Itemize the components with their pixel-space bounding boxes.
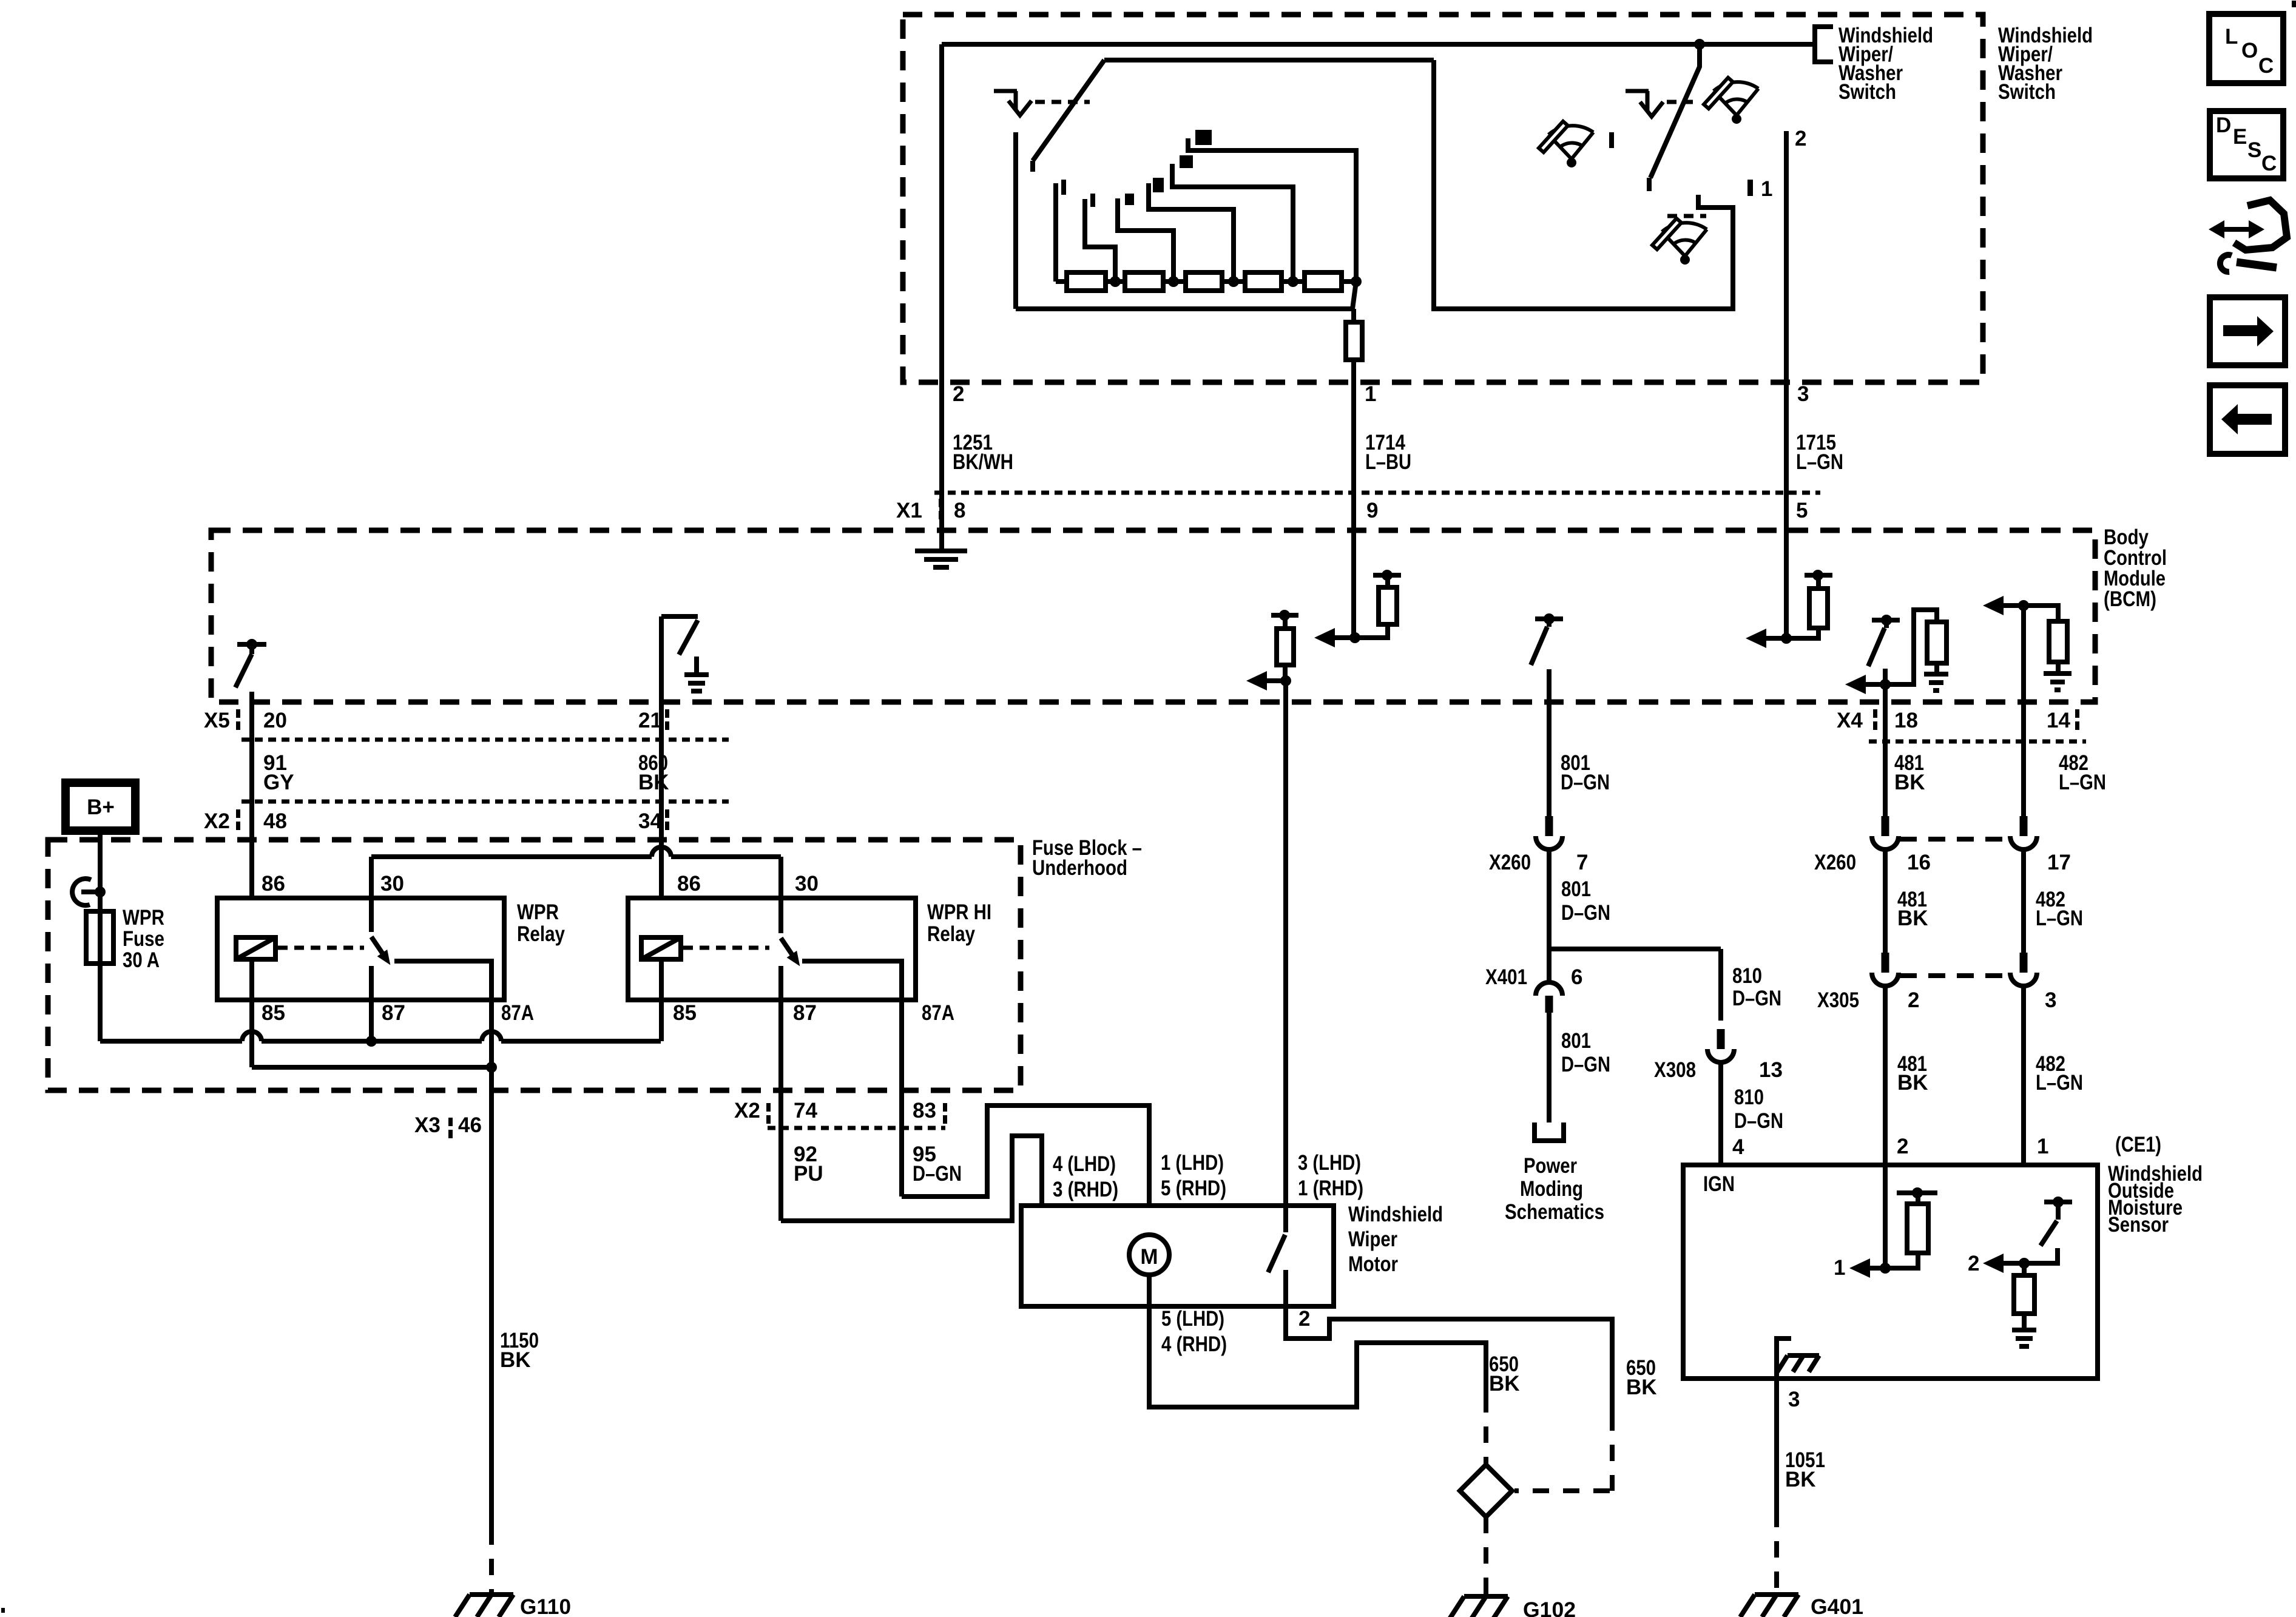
windshield wiper/washer switch dashed box — [903, 15, 1983, 382]
svg-text:E: E — [2233, 125, 2247, 149]
sensor 481 resistor stub — [1916, 1193, 1920, 1204]
sensor 482 contact — [2024, 1248, 2058, 1263]
pin 1 lead — [1351, 309, 1356, 322]
svg-text:IGN: IGN — [1703, 1172, 1735, 1196]
svg-text:3 (LHD): 3 (LHD) — [1298, 1151, 1361, 1175]
wire 650 dashed left — [1484, 1396, 1488, 1463]
svg-text:7: 7 — [1576, 851, 1588, 874]
svg-text:1: 1 — [2037, 1135, 2048, 1158]
481 resistor stub — [1934, 663, 1939, 673]
X5 tick right — [665, 709, 669, 718]
resistor R1 (switch ladder) — [1067, 272, 1106, 291]
svg-text:18: 18 — [1894, 709, 1918, 732]
svg-text:C: C — [2258, 54, 2274, 78]
ladder wire segment 4 — [1222, 279, 1245, 284]
WPR relay coil link — [278, 946, 364, 950]
wire 650 dashed right h — [1514, 1488, 1610, 1493]
resistor (1714 pull-up) — [1379, 587, 1397, 624]
sensor 482 junction — [2019, 1258, 2030, 1269]
wire 482 mid — [2021, 848, 2026, 957]
svg-text:3: 3 — [2045, 988, 2056, 1012]
X5-20 switch bar — [237, 642, 266, 647]
svg-text:Fuse: Fuse — [123, 927, 164, 951]
battery bus segment 1 — [100, 1039, 242, 1044]
wire 810 drop — [1718, 949, 1723, 1021]
riser 1 tick — [1090, 194, 1095, 207]
482 arrow (off-page) — [2000, 603, 2024, 608]
wire 481 mid — [1883, 848, 1888, 957]
svg-text:BK: BK — [1785, 1468, 1816, 1491]
sensor 482 switch stub — [2056, 1202, 2061, 1220]
svg-text:WPR: WPR — [123, 906, 164, 930]
svg-text:1: 1 — [1365, 382, 1376, 406]
svg-text:30 A: 30 A — [123, 948, 160, 972]
resistor (sensor 481) — [1907, 1204, 1928, 1253]
85/87A ground junction — [486, 1062, 497, 1073]
svg-text:34: 34 — [638, 809, 662, 833]
svg-text:13: 13 — [1759, 1058, 1783, 1082]
svg-text:G110: G110 — [520, 1595, 571, 1617]
wire 481 inside sensor — [1883, 1166, 1888, 1268]
ground (482 load) — [2044, 673, 2071, 690]
svg-text:86: 86 — [677, 872, 701, 896]
wiper icon 3 — [1652, 218, 1707, 265]
481 junction — [1880, 679, 1891, 690]
WPR HI relay armature — [776, 934, 805, 970]
482 resistor link — [2024, 606, 2058, 621]
WPR relay armature — [366, 933, 396, 968]
svg-text:5 (LHD): 5 (LHD) — [1161, 1307, 1224, 1331]
resistor (481 load) — [1927, 622, 1947, 663]
svg-text:X401: X401 — [1485, 965, 1527, 989]
ladder bottom conductor — [1016, 306, 1352, 311]
svg-text:D–GN: D–GN — [1561, 771, 1610, 794]
svg-text:C: C — [2261, 152, 2277, 175]
resistor R6 (pin 1) — [1346, 322, 1362, 360]
482 junction — [2018, 600, 2029, 611]
resistor R2 (switch ladder) — [1125, 272, 1163, 291]
svg-text:G401: G401 — [1811, 1595, 1863, 1617]
481 resistor link — [1885, 610, 1937, 684]
svg-text:L–BU: L–BU — [1365, 450, 1411, 474]
svg-text:85: 85 — [673, 1001, 697, 1025]
WPR relay 87A contact — [394, 961, 491, 1067]
resistor (482 load) — [2049, 621, 2067, 662]
svg-text:Sensor: Sensor — [2108, 1213, 2169, 1237]
svg-text:74: 74 — [794, 1099, 817, 1122]
svg-text:BK: BK — [638, 771, 669, 794]
svg-text:1 (LHD): 1 (LHD) — [1161, 1151, 1224, 1175]
connector X305 pin 3 — [2020, 953, 2028, 973]
svg-text:X5: X5 — [204, 709, 230, 732]
wire pin 2 (switch) / 1251 lead — [939, 44, 944, 550]
riser 1 — [1085, 199, 1115, 282]
battery bus segment 2 — [262, 1039, 482, 1044]
wire 801 mid — [1547, 848, 1551, 982]
resistor R5 (switch ladder) — [1305, 272, 1342, 291]
svg-text:X4: X4 — [1837, 709, 1863, 732]
ladder junction node 2 — [1168, 276, 1179, 287]
connector X4 row — [1869, 740, 2086, 744]
wire 801 upper — [1547, 669, 1551, 820]
svg-text:2: 2 — [1897, 1135, 1908, 1158]
wire 92 PU route — [781, 1136, 1129, 1255]
motor-feed supply dot — [1279, 610, 1290, 621]
svg-text:8: 8 — [954, 499, 965, 522]
svg-text:3: 3 — [1788, 1388, 1800, 1411]
1714 supply bar — [1373, 573, 1401, 578]
sensor 481 supply bar — [1897, 1190, 1937, 1195]
sensor internal ground lead — [1777, 1338, 1791, 1379]
X1 tick — [939, 499, 943, 507]
X2 tick (BCM) — [236, 809, 240, 818]
riser 0 tick — [1061, 180, 1066, 195]
svg-text:1 (RHD): 1 (RHD) — [1298, 1176, 1363, 1200]
delay contact v — [1008, 101, 1032, 115]
sensor 482 resistor stub 2 — [2022, 1314, 2027, 1329]
svg-text:D–GN: D–GN — [1561, 901, 1610, 925]
svg-text:85: 85 — [262, 1001, 285, 1025]
rotary lever — [1033, 60, 1104, 161]
svg-text:D: D — [2216, 113, 2231, 137]
WPR HI relay coil slash — [641, 937, 681, 959]
riser 2 square — [1125, 194, 1134, 205]
svg-text:48: 48 — [263, 809, 287, 833]
wire 91 GY — [249, 692, 254, 937]
LOC legend box — [2209, 14, 2283, 83]
svg-text:2: 2 — [1298, 1307, 1310, 1331]
svg-text:Power: Power — [1524, 1154, 1577, 1178]
wire 481 upper — [1883, 669, 1888, 820]
connector X1 row — [934, 491, 1820, 495]
svg-text:9: 9 — [1366, 499, 1378, 522]
WPR relay pin 87 wire — [369, 966, 374, 1041]
motor park switch arm — [1268, 1235, 1285, 1272]
relay 30 bus segment 1 — [371, 854, 652, 859]
1714 arrow (off-page) — [1331, 635, 1355, 640]
svg-text:(BCM): (BCM) — [2104, 587, 2156, 611]
riser 3 square — [1153, 178, 1164, 192]
ladder wire segment 3 — [1163, 279, 1186, 284]
wire 1051 dashed tail — [1774, 1511, 1779, 1593]
rotor wiper contact — [1352, 282, 1356, 309]
label bracket to switch name — [1815, 27, 1833, 62]
connector X308 pin 13 — [1717, 1029, 1725, 1049]
svg-text:G102: G102 — [1523, 1598, 1576, 1617]
wire 650 dashed right v — [1610, 1414, 1615, 1491]
svg-text:5 (RHD): 5 (RHD) — [1161, 1176, 1226, 1200]
svg-text:Motor: Motor — [1348, 1252, 1398, 1276]
WPR HI relay coil — [641, 937, 681, 959]
wire 481 lower — [1883, 985, 1888, 1166]
WPR HI relay coil link — [683, 946, 769, 950]
X5-20 switch arm — [235, 654, 252, 687]
WPR relay coil — [236, 937, 275, 959]
X5-20 switch stub — [249, 644, 254, 654]
X5-20 switch dot — [246, 639, 257, 650]
svg-text:BK: BK — [500, 1348, 531, 1372]
svg-text:17: 17 — [2047, 851, 2071, 874]
fuse clip hook — [72, 879, 91, 905]
860 switch hook — [661, 616, 698, 655]
svg-text:2: 2 — [1795, 127, 1806, 150]
WPR HI relay pin 30 wire — [778, 857, 783, 933]
forward arrow legend box — [2210, 297, 2285, 365]
X4-18 switch stub — [1884, 620, 1889, 628]
1714 pull-up link — [1355, 624, 1388, 638]
svg-text:S: S — [2247, 138, 2261, 162]
riser 4 square — [1180, 155, 1193, 168]
connector X305 pin 2 — [1882, 953, 1889, 973]
resistor (motor feed) — [1277, 629, 1294, 665]
wire 1051 BK — [1774, 1379, 1779, 1511]
svg-text:Switch: Switch — [1838, 80, 1896, 104]
svg-text:16: 16 — [1907, 851, 1931, 874]
sensor output 2 arrow — [2000, 1261, 2024, 1266]
sensor 482 resistor stub — [2022, 1263, 2027, 1275]
sensor 481 resistor link — [1885, 1253, 1918, 1268]
481 arrow (off-page) — [1862, 682, 1885, 687]
ground (sensor 482) — [2012, 1330, 2036, 1346]
wire BCM to wiper motor — [1283, 681, 1288, 1206]
resistor R4 (switch ladder) — [1245, 272, 1281, 291]
fuse block underhood dashed box — [48, 840, 1021, 1090]
sensor 482 switch bar — [2044, 1200, 2072, 1204]
svg-text:D–GN: D–GN — [1732, 987, 1781, 1010]
svg-text:BK: BK — [1897, 1071, 1928, 1095]
svg-text:2: 2 — [1968, 1252, 1979, 1275]
motor-feed supply bar — [1271, 613, 1298, 618]
svg-text:30: 30 — [795, 872, 819, 896]
legend wrench/arrows icon — [2218, 227, 2255, 232]
WPR HI relay 87A contact — [802, 961, 902, 1197]
svg-text:D–GN: D–GN — [1561, 1053, 1610, 1076]
svg-text:810: 810 — [1732, 964, 1762, 988]
ladder junction node 5 — [1351, 276, 1362, 287]
sensor 481 junction — [1880, 1263, 1891, 1274]
back arrow — [2238, 414, 2272, 425]
svg-text:M: M — [1140, 1245, 1158, 1269]
1715 arrow (off-page) — [1763, 636, 1786, 641]
svg-text:X1: X1 — [896, 499, 922, 522]
ladder junction node 3 — [1228, 276, 1239, 287]
svg-text:L–GN: L–GN — [1796, 450, 1843, 474]
WPR relay pin 85 wire — [249, 959, 254, 1067]
resistor (1715 pull-up) — [1809, 589, 1828, 628]
svg-text:Schematics: Schematics — [1505, 1200, 1604, 1224]
WPR HI relay pin 87 wire — [778, 966, 783, 1221]
30 bus hop over 860 wire — [652, 847, 671, 857]
X260 row link — [1900, 837, 2009, 842]
svg-text:D–GN: D–GN — [1734, 1109, 1783, 1133]
ladder wire segment 5 — [1281, 279, 1305, 284]
svg-text:87A: 87A — [501, 1001, 534, 1025]
body control module (BCM) dashed box — [211, 530, 2095, 702]
ground (860 switch) — [684, 675, 709, 691]
wire 810 lower — [1718, 1061, 1723, 1166]
wire 482 lower — [2021, 985, 2026, 1263]
svg-text:X308: X308 — [1654, 1058, 1696, 1082]
WPR HI relay pin 85 wire — [659, 959, 664, 1041]
X4 tick — [1873, 709, 1877, 718]
svg-text:BK: BK — [1897, 906, 1928, 930]
wire 860 BK — [659, 616, 664, 937]
ground G401 — [1740, 1595, 1798, 1617]
svg-text:O: O — [2241, 39, 2258, 62]
svg-text:X260: X260 — [1814, 851, 1856, 874]
svg-text:Wiper: Wiper — [1348, 1227, 1397, 1251]
page corner dot — [1, 1608, 5, 1613]
bus hop over 87A wire — [482, 1031, 501, 1041]
svg-text:WPR: WPR — [517, 900, 559, 924]
svg-text:46: 46 — [458, 1113, 482, 1137]
svg-text:4: 4 — [1732, 1135, 1744, 1159]
X305 row link — [1900, 973, 2009, 978]
ladder wire segment 6 — [1342, 279, 1356, 284]
svg-text:3 (RHD): 3 (RHD) — [1053, 1178, 1118, 1201]
svg-text:BK: BK — [1894, 771, 1925, 794]
svg-text:BK: BK — [1626, 1376, 1657, 1399]
motor-feed stub — [1283, 615, 1288, 629]
washer lever pivot — [1694, 39, 1705, 50]
1715 pull-up stub — [1816, 576, 1821, 589]
washer section conductor — [1434, 60, 1733, 309]
svg-text:30: 30 — [380, 872, 404, 896]
svg-text:801: 801 — [1561, 877, 1591, 901]
svg-text:87: 87 — [382, 1001, 405, 1025]
85 to ground link — [252, 1065, 491, 1070]
ground G102 — [1450, 1596, 1508, 1617]
motor-feed arrow (off-page) — [1263, 678, 1286, 683]
battery bus segment 3 — [501, 1039, 661, 1044]
WPR HI relay box — [628, 898, 916, 1000]
svg-text:801: 801 — [1561, 1029, 1591, 1053]
ground (1251 termination) — [915, 551, 967, 567]
connector X260 pin 16 — [1882, 816, 1889, 836]
svg-text:21: 21 — [638, 709, 662, 732]
wire 810 branch — [1549, 947, 1721, 951]
ladder junction node 4 — [1288, 276, 1298, 287]
motor park switch feed — [1283, 1206, 1288, 1232]
connector X260 pin 7 — [1545, 816, 1553, 836]
svg-text:86: 86 — [262, 872, 285, 896]
X4-18 switch arm — [1868, 628, 1885, 666]
svg-text:Relay: Relay — [517, 922, 565, 946]
battery feed B+ box — [66, 783, 135, 831]
X2 tick right (BCM) — [665, 809, 669, 818]
X4-18 switch dot — [1881, 615, 1892, 626]
svg-text:5: 5 — [1796, 499, 1808, 522]
svg-text:Relay: Relay — [927, 922, 975, 946]
riser 5 square — [1195, 130, 1212, 145]
WPR relay box — [217, 898, 504, 1000]
forward arrow — [2223, 325, 2257, 336]
svg-text:1: 1 — [1761, 177, 1772, 201]
sensor output 1 arrow — [1866, 1266, 1885, 1271]
svg-text:810: 810 — [1734, 1085, 1764, 1109]
1714 pull-up stub — [1385, 575, 1390, 587]
washer contact v — [1640, 102, 1663, 116]
splice to G102 dashed — [1484, 1517, 1488, 1596]
ladder wire segment 2 — [1106, 279, 1125, 284]
washer position 1 tick — [1747, 180, 1753, 196]
connector X401 pin 6 (cup down) — [1536, 982, 1562, 996]
motor ground wire (5 LHD) — [1149, 1275, 1486, 1407]
back arrow legend box — [2210, 385, 2285, 454]
svg-text:2: 2 — [1908, 988, 1919, 1012]
motor-feed lower stub — [1283, 665, 1288, 681]
sensor internal chassis ground — [1777, 1355, 1819, 1372]
fuse clip dot — [95, 886, 106, 897]
svg-text:20: 20 — [263, 709, 287, 732]
svg-text:87: 87 — [793, 1001, 817, 1025]
svg-text:X305: X305 — [1817, 988, 1859, 1012]
wire 1715 upper / washer contact 2 — [1784, 131, 1789, 638]
wiper common conductor — [1013, 132, 1018, 309]
1715 supply dot — [1812, 570, 1823, 581]
sensor 482 switch dot — [2053, 1197, 2064, 1207]
wire 1150 dashed tail — [489, 1528, 494, 1593]
riser 0 (OFF contact) — [1053, 183, 1058, 282]
connector X5 row — [241, 738, 729, 742]
X4 tick right — [2075, 709, 2079, 718]
washer lever — [1649, 48, 1700, 191]
svg-text:83: 83 — [913, 1099, 936, 1122]
ground (481 load) — [1924, 674, 1948, 690]
svg-text:Windshield: Windshield — [1348, 1203, 1443, 1226]
WPR relay coil slash — [236, 937, 275, 959]
svg-text:WPR HI: WPR HI — [927, 900, 991, 924]
X5-11 switch stub — [1547, 619, 1551, 627]
wire 95 D-GN route — [902, 1106, 1149, 1235]
switch shelf conductor — [1104, 58, 1434, 62]
connector X2 row (BCM) — [241, 800, 729, 804]
svg-text:GY: GY — [263, 771, 294, 794]
1714 supply dot — [1382, 570, 1393, 581]
860 ground stub — [694, 657, 699, 673]
X5 tick — [236, 709, 240, 718]
motor M circle — [1129, 1235, 1169, 1275]
svg-text:1: 1 — [1834, 1256, 1845, 1280]
motor pin 2 route — [1286, 1270, 1612, 1414]
svg-text:6: 6 — [1571, 965, 1582, 989]
svg-text:3: 3 — [1797, 382, 1809, 406]
svg-text:X260: X260 — [1489, 851, 1531, 874]
connector X260 pin 17 — [2020, 816, 2028, 836]
svg-text:L–GN: L–GN — [2036, 1071, 2083, 1095]
1715 supply bar — [1805, 573, 1832, 578]
ladder wire segment 1 — [1056, 279, 1067, 284]
svg-text:D–GN: D–GN — [913, 1162, 962, 1186]
mist dashes — [1667, 214, 1706, 218]
wiper icon 1 tick — [1609, 132, 1614, 148]
WPR fuse body — [86, 911, 113, 964]
wiper icon 2 — [1704, 78, 1758, 124]
connector X2 row (fuse) — [768, 1126, 945, 1130]
washer contact symbol — [1626, 91, 1649, 111]
B+ wire — [98, 831, 103, 1041]
page corner mark — [2292, 1, 2296, 7]
wire 1150 BK — [489, 1067, 494, 1528]
svg-text:BK/WH: BK/WH — [953, 450, 1013, 474]
X2 tick (fuse) — [766, 1103, 771, 1112]
switch box top edge — [942, 42, 1815, 47]
svg-text:L–GN: L–GN — [2059, 771, 2106, 794]
svg-text:14: 14 — [2047, 709, 2070, 732]
resistor R3 (switch ladder) — [1186, 272, 1222, 291]
svg-text:(CE1): (CE1) — [2115, 1133, 2161, 1156]
1714 junction — [1349, 632, 1360, 643]
